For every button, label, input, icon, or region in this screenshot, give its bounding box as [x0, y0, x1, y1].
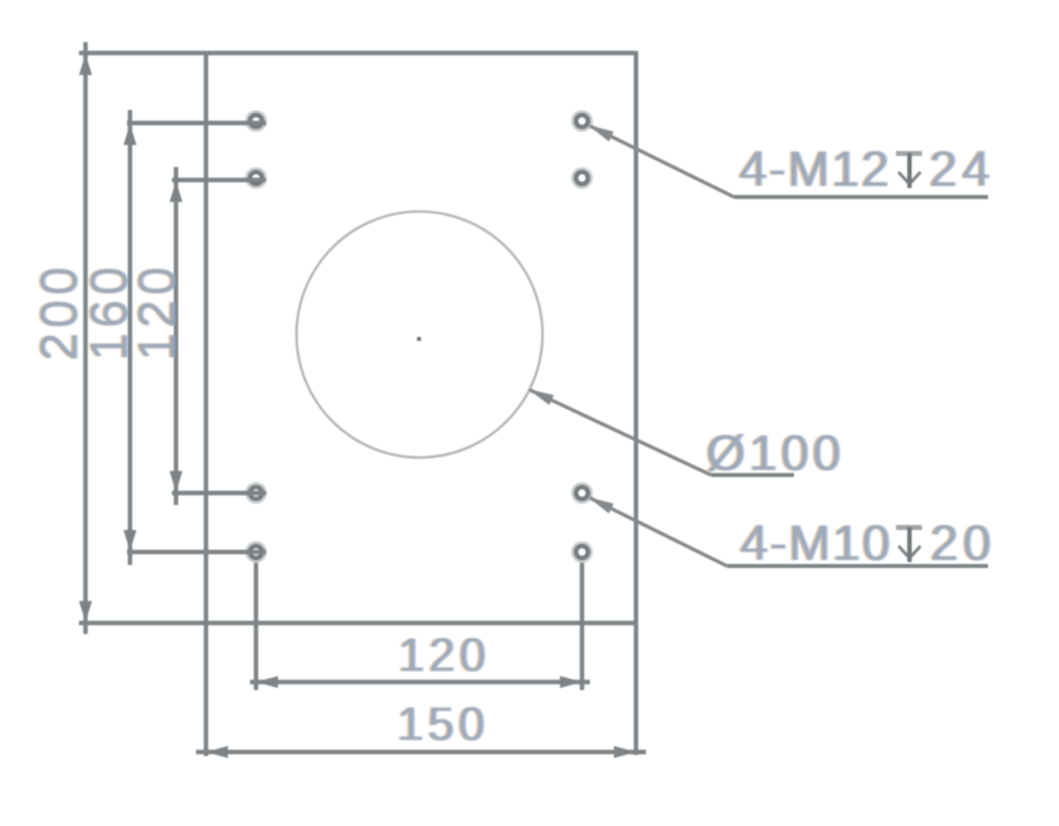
arrowhead 150 horizontal left	[206, 746, 228, 758]
leader line M12	[590, 126, 734, 197]
dimension line 160 vertical	[128, 110, 132, 565]
hole column extension right	[580, 560, 584, 690]
dimension line 120 horizontal	[250, 680, 590, 684]
hole column extension left	[254, 560, 258, 690]
plate left edge with lower extension	[204, 51, 208, 756]
leader arrowhead D100	[526, 384, 554, 405]
arrowhead 160 bottom	[124, 530, 137, 551]
hole top-right row1	[572, 111, 591, 130]
arrowhead 120 horizontal right	[560, 676, 582, 688]
hole bottom-left row3	[246, 483, 265, 502]
arrowhead 120 horizontal left	[256, 676, 278, 688]
hole top-right row2	[572, 168, 591, 187]
dimension line 150 horizontal	[196, 750, 646, 754]
extension tick row3	[172, 491, 266, 495]
plate right edge with lower extension	[634, 51, 638, 755]
plate top edge with left extension	[79, 51, 636, 55]
hole bottom-right row3	[572, 483, 591, 502]
dimension line 120 vertical	[174, 167, 178, 505]
hole top-left row2	[246, 168, 265, 187]
arrowhead 120 top	[170, 181, 183, 202]
arrowhead 160 top	[124, 124, 137, 145]
extension tick row1	[127, 121, 266, 125]
extension tick row2	[172, 178, 266, 182]
dimension text blue subpixel fringe layer	[32, 141, 998, 750]
arrowhead 150 horizontal right	[614, 746, 636, 758]
arrowhead 120 bottom	[170, 471, 183, 492]
bore circle D100	[297, 212, 543, 458]
leader line M10	[590, 498, 727, 566]
depth symbol M12 label	[896, 153, 922, 188]
leader line D100	[530, 390, 711, 475]
depth symbol M10 label	[896, 527, 922, 562]
dimension text main layer	[30, 141, 996, 750]
arrowhead 200 top	[79, 54, 92, 75]
leader arrowhead M12	[586, 120, 614, 141]
leader underline D100	[711, 473, 794, 477]
dimension line 200 vertical	[83, 42, 87, 634]
leader underline M10	[727, 564, 988, 568]
bore center mark	[417, 337, 421, 341]
leader arrowhead M10	[586, 492, 614, 513]
leader underline M12	[734, 195, 988, 199]
extension tick row4	[127, 550, 266, 554]
hole bottom-left row4	[246, 542, 265, 561]
arrowhead 200 bottom	[79, 601, 92, 622]
hole top-left row1	[246, 111, 265, 130]
plate bottom edge with left extension	[79, 621, 636, 625]
hole bottom-right row4	[572, 542, 591, 561]
dimension text orange subpixel fringe layer	[28, 141, 994, 750]
